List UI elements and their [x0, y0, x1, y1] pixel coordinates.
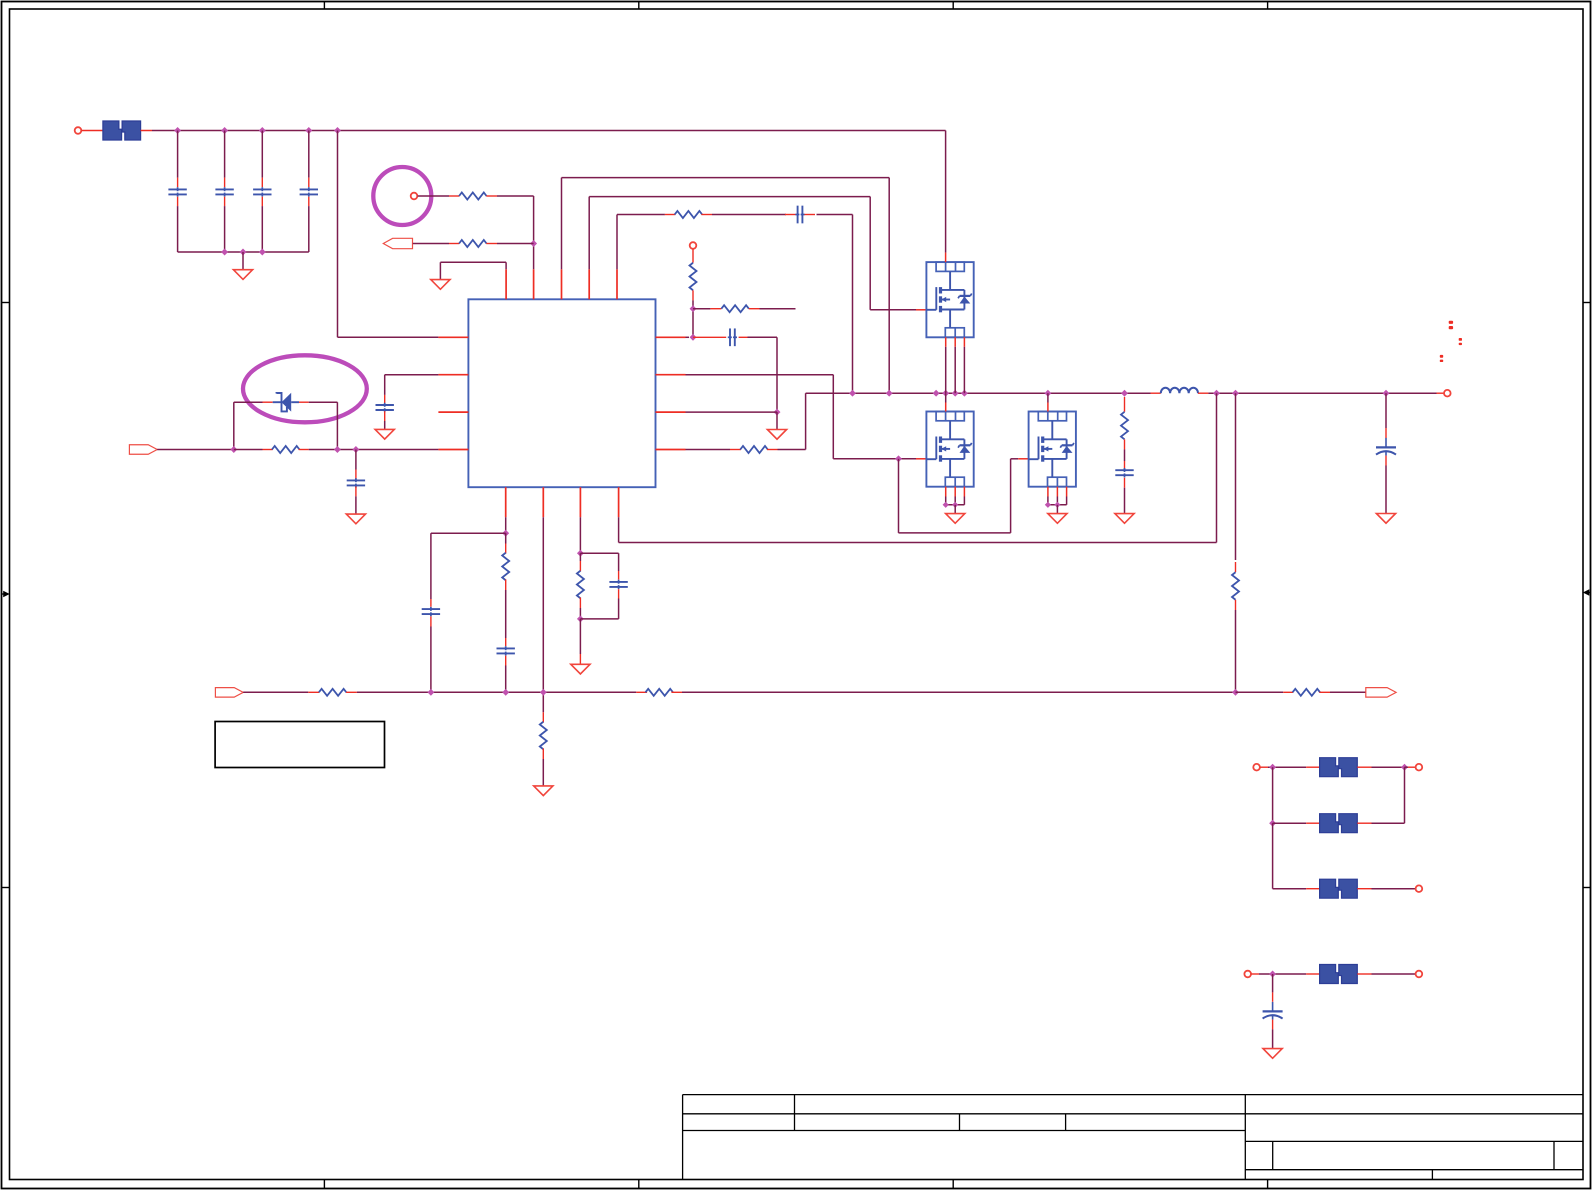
- capacitor C5: [797, 206, 799, 224]
- ground: [1263, 1049, 1282, 1059]
- fuse F1 input: [103, 121, 122, 140]
- terminal T1: [411, 193, 418, 200]
- wire: [693, 308, 710, 310]
- resistor R4: [690, 263, 697, 291]
- wire: [1235, 600, 1237, 610]
- wire gate2 trace: [686, 374, 834, 376]
- wire gate tie: [898, 459, 900, 533]
- ground: [1115, 514, 1134, 524]
- transistor Q2: [926, 412, 973, 487]
- ground: [233, 270, 252, 280]
- wire: [671, 691, 682, 693]
- op-amp U1 controller IC: [468, 299, 655, 487]
- wire: [1260, 766, 1268, 768]
- wire: [1272, 823, 1274, 889]
- wire FB divider: [1235, 393, 1237, 560]
- node junction: [895, 455, 902, 462]
- wire: [1357, 766, 1371, 768]
- wire FB sense: [1216, 393, 1218, 542]
- wire ISNS trace: [686, 449, 731, 451]
- terminal VIN: [75, 127, 82, 134]
- wire VIN rail: [152, 130, 946, 132]
- node junction: [1401, 764, 1408, 771]
- wire: [542, 749, 544, 760]
- wire: [1273, 888, 1307, 890]
- wire: [1272, 767, 1274, 823]
- wire: [505, 533, 507, 543]
- wire: [141, 130, 152, 132]
- wire: [1357, 973, 1371, 975]
- resistor R5: [721, 305, 749, 312]
- fuse F2: [1320, 758, 1339, 777]
- node junctions: [221, 249, 228, 256]
- ground: [346, 514, 365, 524]
- IC bottom pins: [505, 487, 507, 517]
- resistor R9: [272, 446, 300, 453]
- node VOUT junctions: [1213, 390, 1220, 397]
- wire Q2 drain: [945, 393, 947, 402]
- wire: [579, 619, 581, 654]
- wire: [1251, 973, 1259, 975]
- capacitor C12: [497, 647, 515, 649]
- wire: [355, 487, 357, 497]
- node junction: [774, 409, 781, 416]
- centering arrow right: [1587, 592, 1591, 594]
- wire RC trace: [616, 215, 618, 270]
- node junctions: [1045, 502, 1051, 508]
- diode D1 zener: [273, 401, 282, 403]
- wire: [1056, 505, 1058, 514]
- ground: [946, 514, 965, 524]
- wire: [384, 411, 386, 421]
- wire: [242, 252, 244, 270]
- fuse F3: [1320, 814, 1339, 833]
- wire: [418, 195, 449, 197]
- capacitor C13: [609, 581, 627, 583]
- wire: [299, 449, 309, 451]
- wire: [618, 589, 620, 598]
- wire: [1357, 888, 1371, 890]
- resistor R6: [740, 446, 768, 453]
- terminal VOUT: [1444, 390, 1451, 397]
- wire: [767, 449, 778, 451]
- node junction: [502, 530, 509, 537]
- node junction: [530, 240, 537, 247]
- fuse F5: [1320, 965, 1339, 984]
- capacitor C9: [347, 479, 365, 481]
- wire Q1 drain: [945, 131, 947, 253]
- wire gate1 trace: [588, 197, 590, 270]
- node junction: [690, 334, 697, 341]
- wire: [805, 214, 816, 216]
- wire: [580, 552, 618, 554]
- node junction: [577, 550, 584, 557]
- wire: [1198, 392, 1208, 394]
- resistor R2: [459, 240, 487, 247]
- wire: [82, 130, 103, 132]
- ground: [431, 280, 450, 290]
- wire: [579, 517, 581, 553]
- terminal T2: [690, 242, 697, 249]
- capacitor C7 snubber: [1115, 469, 1133, 471]
- wire: [579, 598, 581, 609]
- wire: [1236, 691, 1284, 693]
- zone ticks bottom: [323, 1179, 325, 1188]
- IC top pins: [505, 269, 507, 299]
- resistor R1: [459, 193, 487, 200]
- wire COMP trace: [686, 336, 690, 338]
- resistor R8: [1232, 572, 1239, 600]
- net label mark A: [1449, 321, 1453, 324]
- zone ticks left: [2, 302, 10, 304]
- wire: [749, 308, 760, 310]
- wire bottom rail: [243, 691, 308, 693]
- resistor R14: [645, 689, 673, 696]
- port EN (left): [383, 238, 412, 248]
- title block: [683, 1095, 1583, 1180]
- resistor R7 snubber: [1121, 412, 1128, 440]
- transistor Q1: [926, 262, 973, 337]
- note box: [215, 722, 384, 768]
- capacitor C_in4: [308, 131, 310, 178]
- wire: [346, 691, 357, 693]
- wire: [486, 243, 497, 245]
- wire SW rail: [806, 392, 1151, 394]
- wire: [1272, 1020, 1274, 1030]
- wire: [413, 243, 449, 245]
- wire: [355, 450, 357, 470]
- resistor R11: [540, 722, 547, 750]
- capacitor C_in3: [261, 131, 263, 178]
- wire: [693, 336, 726, 338]
- wire VIN to IC: [337, 131, 339, 338]
- wire: [430, 616, 432, 626]
- wire: [701, 214, 712, 216]
- port TRIM input: [129, 445, 157, 455]
- wire: [1306, 973, 1319, 975]
- wire: [1385, 456, 1387, 466]
- node junction: [577, 615, 584, 622]
- wire: [1272, 974, 1274, 992]
- resistor R3: [675, 211, 703, 218]
- wire Q1 sources: [945, 337, 947, 347]
- wire: [157, 449, 234, 451]
- capacitor C10: [376, 404, 394, 406]
- net label mark B: [1459, 338, 1462, 341]
- wire BST trace: [561, 178, 563, 270]
- node junction: [230, 446, 237, 453]
- terminal T7: [1416, 971, 1423, 978]
- zone ticks top: [323, 2, 325, 10]
- capacitor C14: [1263, 1010, 1283, 1012]
- node SW junctions: [849, 390, 856, 397]
- terminal T4: [1416, 764, 1423, 771]
- wire: [1124, 478, 1126, 488]
- wire: [431, 532, 506, 534]
- transistor Q3: [1029, 412, 1076, 487]
- capacitor C8 output: [1376, 446, 1396, 448]
- capacitor C_in2: [224, 131, 226, 178]
- capacitor C_in1: [177, 131, 179, 178]
- wire: [692, 249, 694, 263]
- resistor R15: [1293, 689, 1321, 696]
- resistor R10: [502, 553, 509, 581]
- wire Q3 drain: [1047, 393, 1049, 402]
- IC right pins: [656, 336, 686, 338]
- wire: [505, 517, 507, 533]
- wire: [1357, 822, 1371, 824]
- wire Q3 sources: [1047, 487, 1049, 497]
- capacitor C6: [729, 328, 731, 346]
- wire: [1405, 766, 1409, 768]
- wire: [486, 195, 497, 197]
- ground: [375, 429, 394, 439]
- node junctions: [943, 502, 949, 508]
- terminal T6: [1244, 971, 1251, 978]
- port FB output: [1366, 688, 1396, 698]
- highlight circle: [373, 167, 431, 225]
- wire: [505, 656, 507, 666]
- wire: [954, 505, 956, 514]
- wire: [234, 449, 263, 451]
- ground: [1048, 514, 1067, 524]
- wire: [1306, 766, 1319, 768]
- capacitor C11: [422, 608, 440, 610]
- node junction: [1269, 820, 1276, 827]
- wire: [1124, 439, 1126, 449]
- wire Q2 sources: [945, 487, 947, 497]
- ground: [767, 430, 786, 440]
- terminal T3: [1253, 764, 1260, 771]
- node junction: [1269, 764, 1276, 771]
- ground: [534, 786, 553, 796]
- port FB input: [215, 688, 243, 698]
- wire: [533, 196, 535, 269]
- wire cap bank join: [178, 251, 309, 253]
- wire: [505, 262, 507, 269]
- resistor R13: [319, 689, 347, 696]
- zone ticks right: [1583, 302, 1591, 304]
- inductor L1: [1161, 388, 1198, 394]
- terminal T5: [1416, 885, 1423, 892]
- wire: [579, 553, 581, 561]
- centering arrow left: [2, 593, 6, 595]
- net label mark C: [1440, 355, 1443, 358]
- fuse F4: [1320, 879, 1339, 898]
- highlight ellipse: [243, 355, 367, 422]
- wire: [692, 290, 694, 300]
- wire: [1385, 393, 1387, 428]
- wire: [542, 517, 544, 692]
- IC left pins: [438, 336, 468, 338]
- wire: [1319, 691, 1330, 693]
- node junction: [352, 446, 359, 453]
- ground: [1376, 514, 1395, 524]
- node junctions bottom rail: [427, 689, 434, 696]
- wire: [1124, 397, 1126, 412]
- wire: [505, 580, 507, 591]
- node junction: [690, 305, 697, 312]
- node VIN junctions: [174, 127, 181, 134]
- ground: [571, 664, 590, 674]
- wire: [739, 336, 748, 338]
- wire: [686, 411, 778, 413]
- resistor R12: [577, 571, 584, 599]
- wire: [233, 402, 235, 449]
- node junction: [1269, 971, 1276, 978]
- node junction: [334, 446, 341, 453]
- wire: [1273, 822, 1307, 824]
- wire: [385, 374, 439, 376]
- wire: [299, 401, 309, 403]
